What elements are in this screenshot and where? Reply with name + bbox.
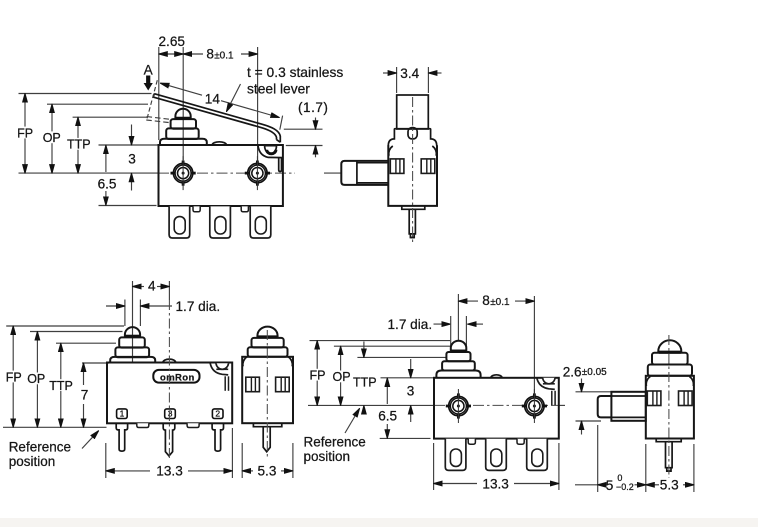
svg-text:8: 8 — [206, 47, 214, 62]
svg-text:13.3: 13.3 — [482, 477, 508, 492]
svg-text:steel lever: steel lever — [247, 82, 310, 97]
svg-text:5: 5 — [606, 478, 614, 493]
svg-text:position: position — [304, 449, 351, 464]
svg-text:Reference: Reference — [304, 435, 366, 450]
svg-text:TTP: TTP — [353, 375, 377, 389]
svg-text:2.6: 2.6 — [563, 364, 582, 379]
svg-text:6.5: 6.5 — [98, 176, 117, 191]
svg-text:OP: OP — [333, 370, 351, 384]
svg-text:position: position — [9, 454, 56, 469]
svg-text:FP: FP — [17, 126, 33, 140]
svg-text:5.3: 5.3 — [258, 464, 277, 479]
svg-text:t = 0.3 stainless: t = 0.3 stainless — [247, 65, 343, 80]
svg-text:±0.05: ±0.05 — [582, 367, 607, 378]
svg-text:A: A — [144, 63, 154, 78]
svg-text:−0.2: −0.2 — [616, 482, 634, 492]
svg-text:5.3: 5.3 — [660, 478, 679, 493]
svg-text:3.4: 3.4 — [400, 66, 419, 81]
svg-text:±0.1: ±0.1 — [490, 297, 510, 308]
svg-text:Reference: Reference — [9, 440, 71, 455]
svg-text:3: 3 — [128, 152, 136, 167]
svg-text:omRon: omRon — [160, 373, 195, 384]
svg-text:TTP: TTP — [67, 138, 91, 152]
svg-text:14: 14 — [205, 92, 221, 107]
svg-text:OP: OP — [43, 131, 61, 145]
svg-text:1.7 dia.: 1.7 dia. — [388, 317, 433, 332]
svg-text:(1.7): (1.7) — [298, 100, 328, 115]
svg-text:4: 4 — [148, 278, 156, 293]
svg-text:8: 8 — [482, 293, 490, 308]
svg-text:OP: OP — [27, 372, 45, 386]
svg-text:13.3: 13.3 — [156, 464, 182, 479]
svg-text:7: 7 — [81, 388, 89, 403]
svg-text:1: 1 — [120, 409, 125, 419]
svg-text:TTP: TTP — [49, 379, 73, 393]
svg-text:3: 3 — [168, 409, 173, 419]
svg-text:FP: FP — [6, 370, 22, 384]
svg-text:3: 3 — [407, 383, 415, 398]
svg-text:±0.1: ±0.1 — [214, 50, 234, 61]
svg-text:1.7 dia.: 1.7 dia. — [176, 299, 221, 314]
svg-text:2: 2 — [215, 409, 220, 419]
svg-text:6.5: 6.5 — [378, 408, 397, 423]
svg-text:FP: FP — [310, 369, 326, 383]
svg-text:2.65: 2.65 — [159, 34, 185, 49]
